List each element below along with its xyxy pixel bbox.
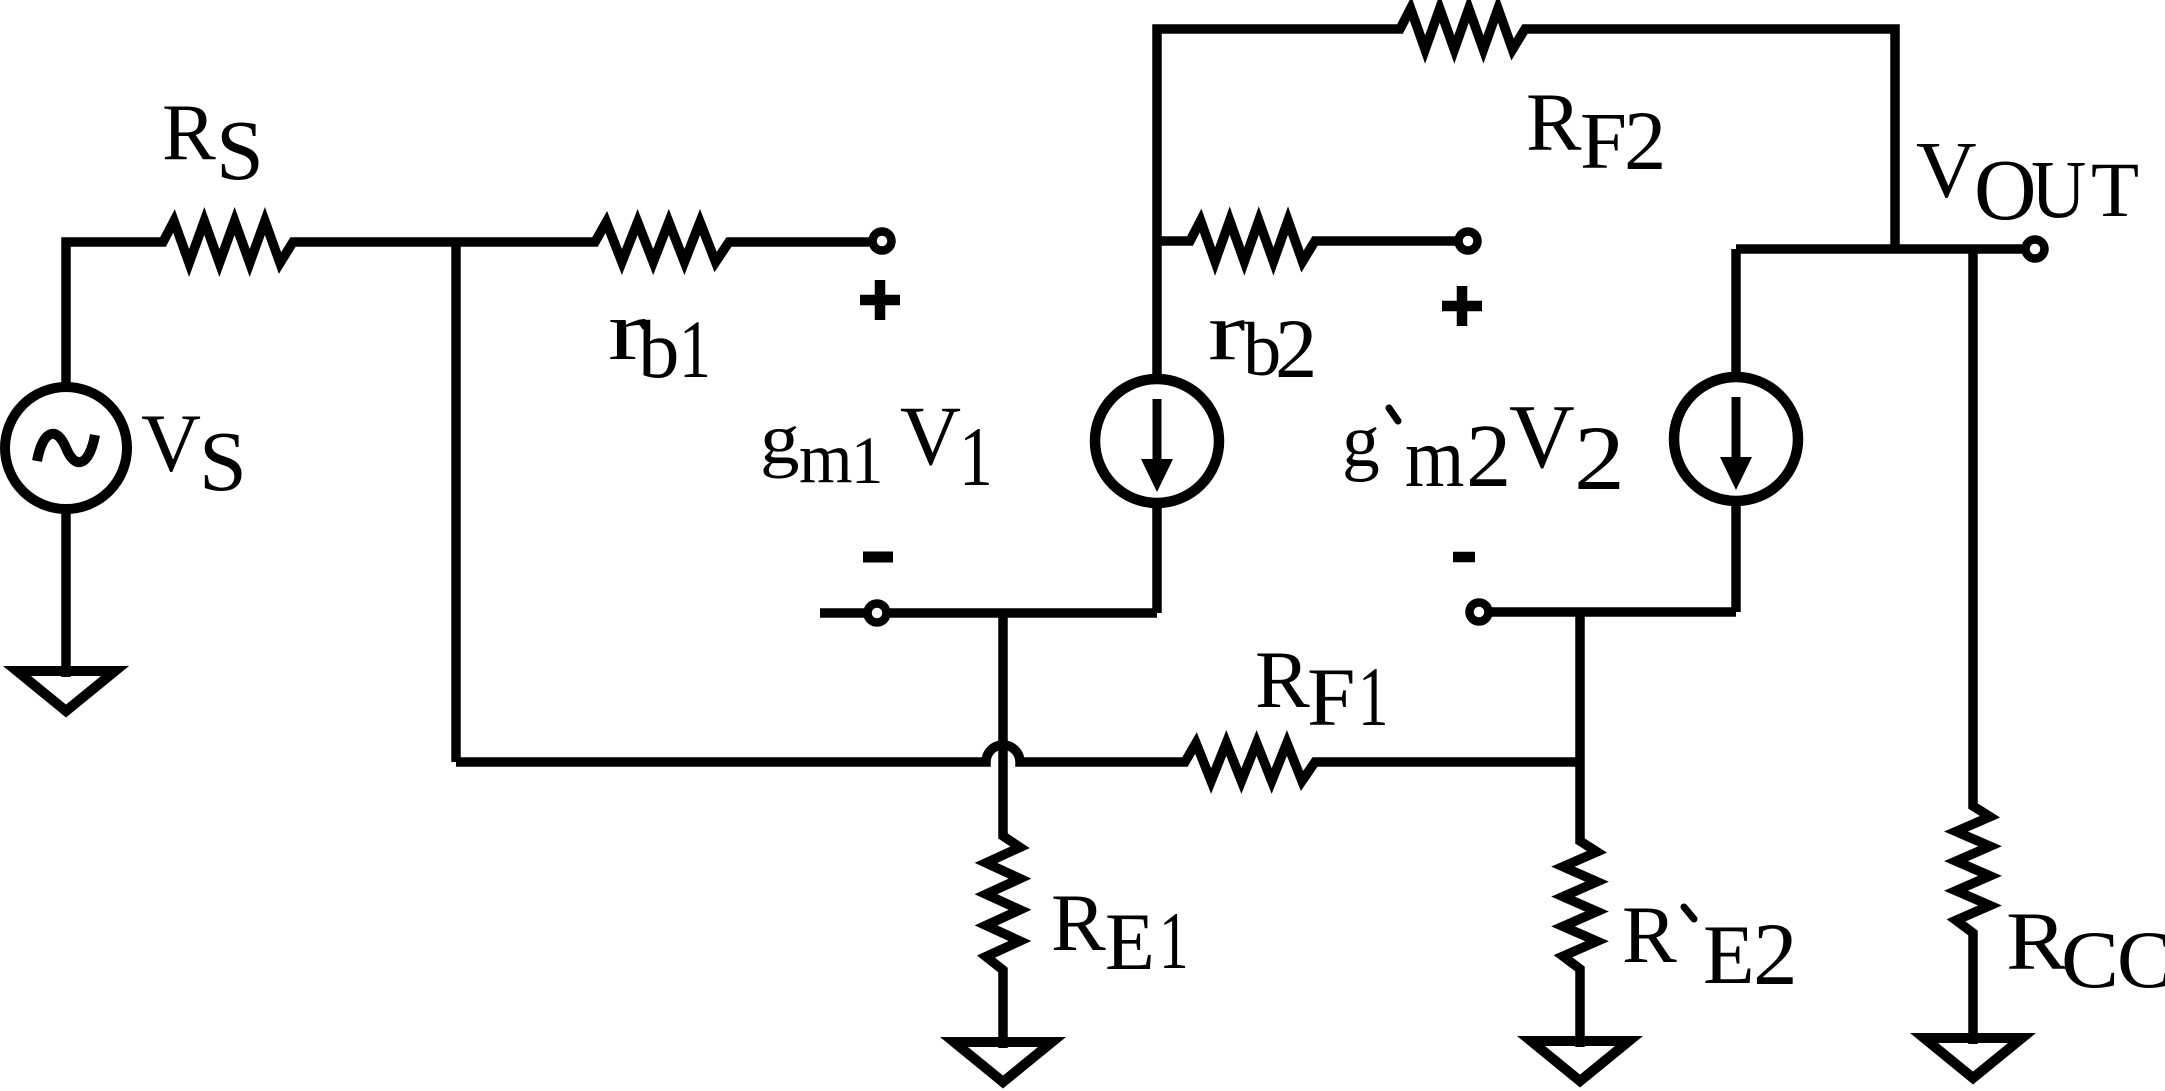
wire V1- stub to CS1 xyxy=(820,608,1157,618)
wire top rail left segment xyxy=(1157,29,1340,381)
resistor RE1 xyxy=(986,790,1020,1048)
svg-text:R: R xyxy=(2006,895,2068,987)
wire VOUT rail xyxy=(1736,244,2022,254)
svg-text:1: 1 xyxy=(851,424,883,499)
voltage source VS xyxy=(5,387,127,509)
svg-text:2: 2 xyxy=(1466,405,1511,506)
terminal VOUT xyxy=(2026,240,2045,259)
wire top rail right segment down to VOUT rail xyxy=(1600,29,1895,249)
wire RS to rb1 xyxy=(440,237,540,247)
resistor R`E2 xyxy=(1563,795,1597,1047)
prime mark of g`m2 xyxy=(1389,408,1398,421)
svg-text:E: E xyxy=(1703,909,1755,1002)
svg-text:R: R xyxy=(1051,877,1106,968)
svg-text:1: 1 xyxy=(1358,649,1388,743)
wire RF1 to node E2 xyxy=(1400,757,1580,767)
prime mark of R`E2 xyxy=(1684,907,1694,919)
arrow of g`m2V2 xyxy=(1732,397,1741,460)
svg-text:m: m xyxy=(1405,411,1464,505)
svg-text:C: C xyxy=(2061,915,2119,1005)
svg-text:V: V xyxy=(141,397,201,489)
svg-text:O: O xyxy=(1974,142,2037,238)
svg-text:V: V xyxy=(1916,126,1977,215)
ground (RCC) xyxy=(1924,1038,2022,1078)
svg-text:S: S xyxy=(199,413,247,509)
resistor RF2 xyxy=(1340,9,1600,50)
ground (RE1) xyxy=(954,1042,1052,1082)
ground (RE2) xyxy=(1531,1041,1629,1081)
wire CS2 bottom xyxy=(1731,499,1741,612)
svg-text:m: m xyxy=(799,419,853,499)
svg-text:R: R xyxy=(1526,76,1582,168)
svg-text:2: 2 xyxy=(1574,407,1625,510)
svg-text:U: U xyxy=(2031,144,2086,236)
resistor RCC xyxy=(1956,760,1990,980)
plus sign V1 xyxy=(860,280,900,320)
wire CS1 branch to rb2 xyxy=(1157,236,1170,246)
svg-text:F: F xyxy=(1580,96,1627,186)
wire node E2 down to RE2 xyxy=(1575,612,1585,795)
wire RCC to ground xyxy=(1968,980,1978,1044)
svg-text:V: V xyxy=(1509,386,1575,487)
svg-text:r: r xyxy=(1208,286,1245,378)
wire RCC branch down xyxy=(1968,249,1978,760)
wire CS1 bottom xyxy=(1152,501,1162,613)
feedback rail wire with hop over RE1 branch xyxy=(456,745,1120,762)
plus sign V2 xyxy=(1442,286,1482,326)
ground (VS) xyxy=(17,671,115,711)
svg-text:g: g xyxy=(1342,400,1380,483)
terminal V2+ xyxy=(1459,232,1478,251)
resistor rb2 xyxy=(1170,221,1380,262)
svg-text:2: 2 xyxy=(1624,95,1666,188)
resistor RF1 xyxy=(1120,743,1400,781)
svg-text:1: 1 xyxy=(679,303,711,394)
arrow of gm1V1 xyxy=(1153,399,1162,462)
svg-text:2: 2 xyxy=(1275,303,1317,396)
svg-text:V: V xyxy=(900,390,961,483)
current source gm1V1 xyxy=(1095,379,1219,503)
wire rb1 to V1+ terminal xyxy=(800,237,869,247)
svg-text:g: g xyxy=(760,399,800,479)
minus sign V2 xyxy=(1453,552,1475,563)
svg-text:F: F xyxy=(1307,652,1356,744)
svg-text:R: R xyxy=(1622,889,1677,980)
terminal V2- xyxy=(1470,603,1489,622)
current source g`m2V2 xyxy=(1674,377,1798,501)
wire node E1 down to RE1 xyxy=(998,613,1008,790)
svg-text:b: b xyxy=(638,303,680,395)
resistor rb1 xyxy=(540,222,800,262)
wire VS bottom to ground xyxy=(61,509,71,677)
wire input node down to feedback rail xyxy=(451,242,461,762)
svg-text:2: 2 xyxy=(1753,906,1798,1004)
VS sine symbol xyxy=(37,434,95,462)
minus sign V1 xyxy=(863,552,893,563)
terminal V1- xyxy=(868,604,887,623)
svg-text:S: S xyxy=(216,102,264,198)
resistor RS xyxy=(115,221,440,263)
svg-text:1: 1 xyxy=(1159,896,1189,987)
svg-text:R: R xyxy=(1255,634,1310,725)
terminal V1+ xyxy=(873,232,892,251)
svg-text:T: T xyxy=(2091,147,2139,234)
wire CS2 vertical top xyxy=(1731,249,1741,379)
wire VS top to RS xyxy=(66,242,115,387)
wire rb2 to V2+ terminal xyxy=(1380,236,1455,246)
svg-text:E: E xyxy=(1105,896,1155,987)
svg-text:R: R xyxy=(162,88,216,177)
svg-text:1: 1 xyxy=(959,410,993,504)
svg-text:C: C xyxy=(2117,914,2165,1005)
wire V2- to CS2 xyxy=(1492,607,1736,617)
